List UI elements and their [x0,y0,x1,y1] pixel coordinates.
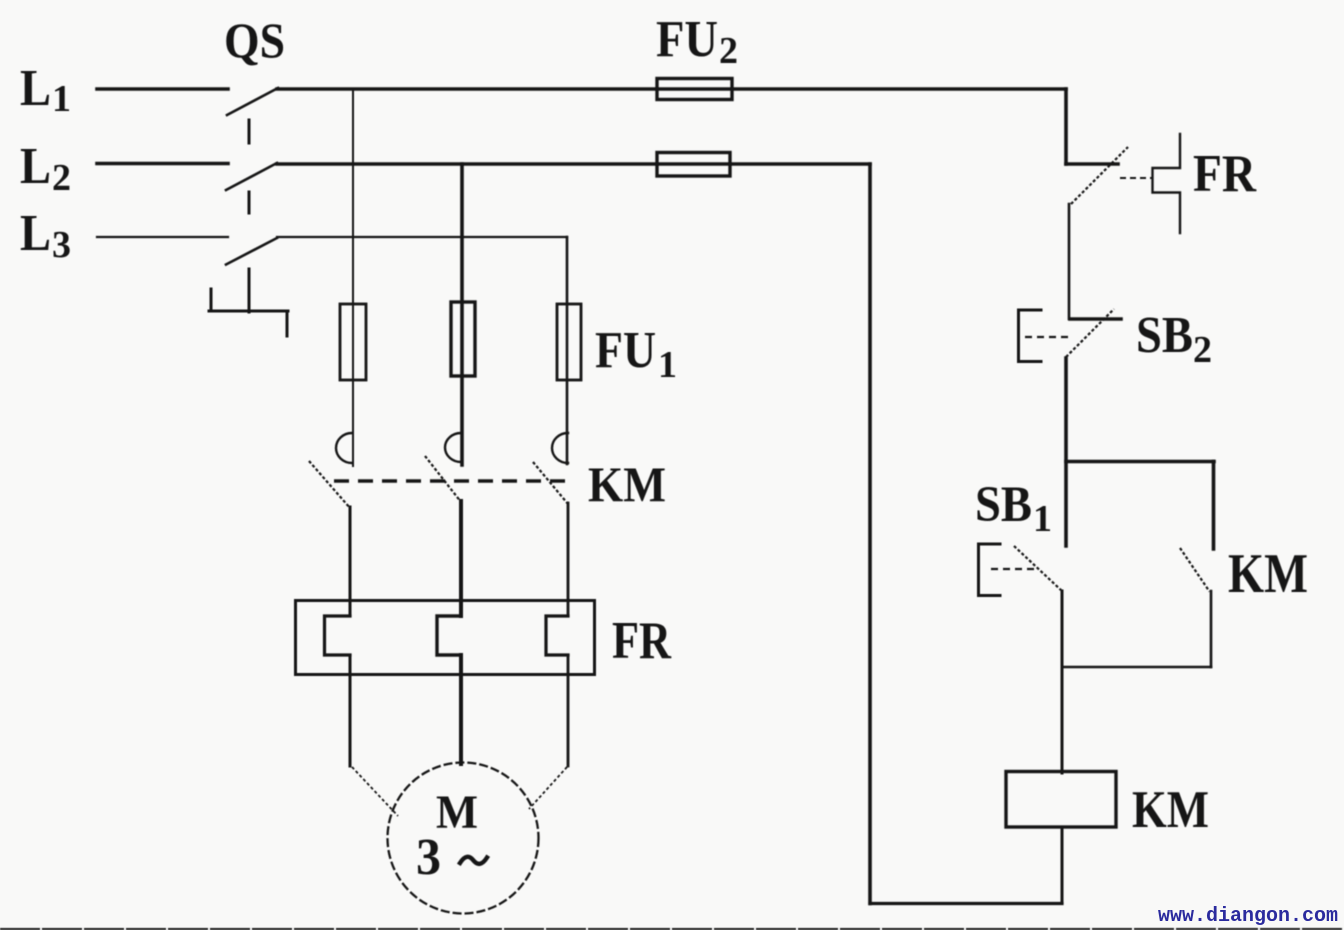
wire KM aux lower [1210,591,1213,667]
wire pole 1 to FR heater [349,507,352,616]
stop button SB2 blade [1066,309,1114,357]
stop button SB2 label [1136,307,1212,371]
contactor coil KM [1006,772,1116,828]
svg-text:L: L [20,205,51,262]
wire pole 2 to FR heater [459,501,463,616]
fuse FU2 b [657,153,730,177]
wire SB1 to coil [1061,591,1064,773]
FR heater element 3 [546,616,568,655]
wire L3 incoming [97,236,228,238]
contactor KM main pole 3 blade [533,462,568,504]
FR contact dashed link [1120,177,1152,179]
motor M circle [388,763,539,914]
wire L2 rail down [868,164,872,904]
svg-text:3: 3 [52,224,71,266]
wire KM aux upper [1212,462,1216,550]
wire pole 3 to FR heater [567,503,570,616]
start button SB1 blade [1014,546,1062,591]
wire L1 incoming [97,87,228,91]
contactor KM main pole 2 blade [425,456,461,502]
FR heater element 1 [325,616,351,655]
wire drop phase C [566,237,569,464]
svg-text:FU: FU [656,11,718,68]
contactor KM main pole 2 hook [445,433,461,462]
svg-text:L: L [20,138,51,195]
FR contact fixed tick [1066,162,1118,166]
wire branch bottom [1062,666,1211,669]
node L2 phase label [20,138,71,199]
wire motor lead 3 dotted [529,767,567,809]
start button SB1 label [975,477,1052,540]
node L3 phase label [20,205,71,266]
fuse FU1 c [557,304,581,380]
svg-text:1: 1 [1033,498,1052,540]
wire L1 bus to control corner [277,87,1066,91]
switch QS pole 1 blade [227,88,278,115]
wire drop phase B [460,164,464,465]
svg-text:L: L [20,60,51,117]
wire heater 3 to motor [567,655,570,766]
svg-text:FU: FU [595,322,656,379]
svg-text:QS: QS [224,12,285,68]
fuse FU1 b [451,302,475,376]
contactor KM main pole 3 hook [552,433,568,463]
switch QS linkage dashed [248,120,251,312]
svg-text:2: 2 [52,157,71,199]
fuse FU2 label [656,11,738,72]
wire bottom return [870,902,1062,905]
svg-text:SB: SB [975,477,1032,533]
contactor KM linkage dashed [334,479,566,483]
wire branch top to KM aux [1066,460,1214,464]
fuse FU2 a [657,79,732,100]
switch QS pole 2 blade [226,163,277,190]
switch QS pole 3 blade [226,238,277,265]
wire coil to bottom [1061,827,1064,904]
svg-text:FR: FR [1193,145,1257,203]
svg-text:KM: KM [1132,781,1209,839]
wire heater 2 to motor [459,655,463,764]
scan artifact bottom edge line [0,928,1344,930]
node L1 phase label [20,60,71,120]
wire L2 bus [277,162,870,166]
wire L3 bus [277,236,567,238]
svg-text:3: 3 [416,829,441,886]
wire L2 incoming [97,162,228,166]
wire SB2 to SB1 [1064,358,1068,546]
svg-text:1: 1 [658,344,677,386]
start button SB1 dashed link [991,568,1034,570]
wire heater 1 to motor [349,655,352,766]
svg-text:SB: SB [1136,307,1193,364]
FR thermal element symbol [1153,134,1181,233]
fuse FU1 a [340,304,366,380]
svg-text:KM: KM [588,456,666,512]
switch QS handle [209,289,288,336]
contactor KM main pole 1 blade [309,461,350,508]
wire motor lead 1 dotted [352,767,398,816]
KM aux contact blade [1180,548,1210,592]
wire FR to SB2 [1068,204,1071,319]
wire control corner from L1 [1064,89,1068,164]
svg-text:2: 2 [1193,329,1212,371]
FR contact blade [1071,147,1128,204]
svg-text:M: M [436,786,478,839]
stop button SB2 fixed tick [1070,317,1121,321]
svg-text:1: 1 [52,78,71,120]
motor tilde [460,857,487,864]
contactor KM main pole 1 hook [336,433,352,463]
wire drop phase A [352,89,354,466]
fuse FU1 label [595,322,677,386]
stop button SB2 dashed link [1025,336,1068,338]
svg-text:2: 2 [719,30,738,72]
svg-text:FR: FR [612,612,672,670]
thermal relay FR box [296,601,595,675]
stop button SB2 actuator bracket [1019,310,1042,362]
svg-text:www.diangon.com: www.diangon.com [1158,905,1338,928]
start button SB1 actuator bracket [979,544,1001,596]
FR heater element 2 [437,616,461,655]
svg-text:KM: KM [1228,543,1308,605]
